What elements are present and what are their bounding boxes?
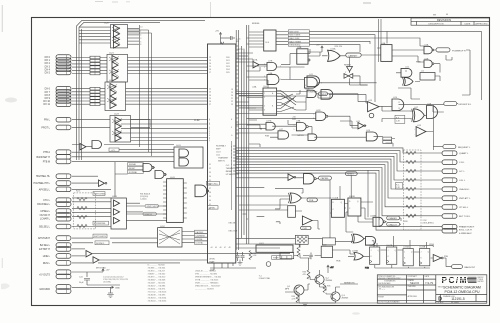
- box small caps: [322, 238, 335, 245]
- label boxes stack (SIGNAL/RESET/NORMAL): [128, 163, 144, 174]
- svg-text:DX5: DX5: [226, 72, 230, 74]
- connector RUN L: [56, 261, 71, 266]
- AND gate U7C: [267, 63, 277, 71]
- svg-text:J: J: [388, 250, 389, 252]
- svg-text:DO NOT SCALE DRAWING: DO NOT SCALE DRAWING: [378, 300, 400, 303]
- svg-text:39: 39: [209, 196, 211, 198]
- svg-text:37: 37: [209, 188, 211, 190]
- wire bus to U5: [247, 32, 261, 47]
- svg-text:U-32: U-32: [194, 118, 200, 122]
- connector GROUND: [56, 285, 71, 290]
- svg-text:SELSEL L: SELSEL L: [39, 226, 51, 229]
- resistor RN row 1: [406, 160, 416, 163]
- svg-text:RESET: RESET: [226, 171, 233, 173]
- flip-flop U56B: [420, 247, 430, 266]
- svg-text:BFT SIG: BFT SIG: [238, 49, 246, 51]
- resistor RN row 4: [406, 187, 416, 190]
- resistor RN row 7: [406, 214, 416, 217]
- label box SCATXF: [143, 212, 157, 216]
- svg-text:MINI TIMER: MINI TIMER: [289, 35, 301, 37]
- wire U32 bottom stubs: [210, 263, 256, 270]
- connector LCHAR L: [56, 216, 71, 221]
- wire bus line 5: [236, 162, 442, 198]
- svg-text:4-WIRE AUX: 4-WIRE AUX: [459, 232, 472, 235]
- svg-text:RUN L: RUN L: [43, 262, 51, 265]
- svg-text:REQUEST L: REQUEST L: [458, 147, 471, 149]
- svg-text:U-21: U-21: [109, 53, 115, 55]
- svg-text:LP SER: LP SER: [226, 174, 234, 176]
- svg-text:DX 11: DX 11: [44, 103, 51, 106]
- wire RUN row: [72, 262, 92, 264]
- svg-text:12: 12: [209, 57, 211, 59]
- wire extra field density: [236, 49, 470, 147]
- svg-text:U-50B: U-50B: [349, 196, 355, 198]
- svg-text:DESCRIPTION: DESCRIPTION: [429, 24, 444, 26]
- connector PIN L: [56, 117, 71, 122]
- svg-text:23: 23: [231, 104, 233, 106]
- buffer U7B: [253, 62, 259, 68]
- svg-text:24: 24: [209, 95, 211, 97]
- wire vertical pair top right: [379, 19, 382, 62]
- svg-text:U-2A: U-2A: [424, 44, 429, 47]
- wire CTC/PACKSEL rows: [72, 197, 111, 199]
- svg-text:21: 21: [231, 98, 233, 100]
- svg-text:CYBER: CYBER: [478, 279, 484, 281]
- connector CHA SIG L: [442, 187, 457, 192]
- AND gate U30B: [92, 141, 102, 149]
- pin number specks: [264, 64, 415, 136]
- wire bus line 2: [79, 22, 160, 160]
- svg-text:RESET: RESET: [347, 174, 355, 176]
- connector RESET oval: [345, 172, 357, 176]
- svg-text:74LS74 ..... 74L257: 74LS74 ..... 74L257: [148, 271, 166, 273]
- XOR gate U52B: [289, 193, 302, 203]
- label box BUFCTL: [95, 241, 109, 245]
- svg-text:.................... 74LS93: .................... 74LS93: [195, 289, 214, 291]
- connector EXTINT H: [56, 247, 71, 252]
- wire transistor section: [230, 244, 377, 303]
- svg-text:NORMAL: NORMAL: [129, 171, 138, 174]
- buffer group U22: [105, 80, 126, 110]
- svg-text:7: 7: [209, 139, 210, 141]
- svg-text:CONTRACT: CONTRACT: [408, 275, 417, 278]
- connector APSTGB H: [56, 236, 71, 241]
- crystal Y1: [259, 262, 271, 280]
- svg-text:U-12: U-12: [405, 67, 409, 69]
- svg-text:DEVSKP B L: DEVSKP B L: [459, 104, 473, 106]
- connector DX2: [56, 61, 71, 66]
- svg-text:U-1: U-1: [421, 71, 424, 73]
- svg-text:3: 3: [280, 66, 281, 68]
- wire vertical bus 1: [235, 30, 237, 250]
- connector FRAME RUN H: [442, 225, 457, 230]
- resistor RN row 6: [406, 205, 416, 208]
- svg-text:VIDB ................ TMS4045: VIDB ................ TMS4045: [195, 283, 219, 285]
- svg-text:U-15: U-15: [356, 121, 360, 123]
- buffer U23A: [86, 251, 92, 257]
- paper edge artifact left: [1, 5, 3, 32]
- svg-text:40: 40: [209, 200, 211, 202]
- svg-text:CHECKED: CHECKED: [408, 286, 417, 288]
- svg-text:10: 10: [140, 27, 142, 29]
- NAND gate U53B: [304, 174, 317, 184]
- wire EXTINT row: [72, 248, 85, 250]
- svg-text:12: 12: [398, 102, 400, 104]
- inverter U53A: [288, 174, 296, 180]
- IC U41: [163, 177, 187, 222]
- svg-text:3: 3: [140, 38, 141, 40]
- svg-text:3: 3: [209, 123, 210, 125]
- IC U59 box: [321, 244, 332, 257]
- opamp U51B: [302, 216, 312, 225]
- svg-text:74LS157 ... 74LS86: 74LS157 ... 74LS86: [148, 286, 167, 288]
- wire UPSEL/OUTAF/LCHAR rows: [72, 208, 111, 210]
- svg-text:U-19: U-19: [417, 125, 421, 127]
- svg-text:GROUND: GROUND: [39, 288, 50, 291]
- svg-text:74L5257 ... 74LS32: 74L5257 ... 74LS32: [148, 283, 166, 285]
- svg-text:U-14: U-14: [393, 97, 397, 99]
- XOR gate U12B: [403, 78, 414, 86]
- svg-text:8: 8: [321, 83, 322, 85]
- OR gate U10A: [328, 50, 341, 61]
- paper top marks: [95, 1, 130, 4]
- resistor pull-up column dashed box: [404, 150, 422, 230]
- svg-text:CHA SIG L: CHA SIG L: [459, 188, 470, 191]
- AND gate U8B: [305, 78, 318, 89]
- svg-text:U-8A: U-8A: [296, 120, 301, 123]
- svg-text:LDGITAL: LDGITAL: [196, 242, 204, 245]
- resistor pack boxes DX0-5: [90, 56, 100, 105]
- svg-text:SWITCHSTB: SWITCHSTB: [147, 206, 159, 208]
- pass gate: [344, 74, 353, 79]
- opamp U19: [416, 127, 426, 137]
- wire vertical bus 3: [246, 25, 248, 244]
- net label SERBIT: [340, 282, 358, 284]
- wire field interconnects: [236, 31, 481, 150]
- svg-text:MAXI DISK: MAXI DISK: [289, 37, 300, 40]
- wire bus line 0: [236, 148, 442, 153]
- resistor boxes R31: [383, 137, 392, 143]
- svg-text:4: 4: [264, 76, 265, 78]
- paper smudge left upper: [5, 98, 17, 103]
- svg-text:32: 32: [209, 168, 211, 170]
- svg-text:VXTB ................ 74LS123: VXTB ................ 74LS123: [195, 280, 219, 282]
- svg-text:BUT TON L: BUT TON L: [459, 216, 471, 218]
- svg-text:+5V: +5V: [215, 31, 219, 33]
- connector DX8: [56, 93, 71, 98]
- svg-text:U-27A: U-27A: [266, 120, 272, 123]
- resistor network dashed box: [74, 193, 96, 229]
- svg-text:SKIP: SKIP: [216, 149, 221, 151]
- svg-text:U-11: U-11: [309, 74, 313, 76]
- svg-text:U-31: U-31: [176, 145, 182, 147]
- svg-text:31: 31: [209, 164, 211, 166]
- svg-text:U-13: U-13: [368, 100, 372, 102]
- svg-text:IC ............. 74LS00: IC ............. 74LS00: [148, 265, 166, 267]
- capacitor C21: [236, 252, 240, 261]
- pencil mark top center: [210, 2, 212, 17]
- svg-text:OSC OUT: OSC OUT: [228, 231, 238, 233]
- connector O.B. L: [442, 178, 457, 183]
- svg-text:22: 22: [231, 101, 233, 103]
- svg-text:2N3904: 2N3904: [326, 280, 333, 282]
- svg-text:PUR: PUR: [303, 228, 308, 230]
- resistor RN row 5: [406, 196, 416, 199]
- NAND gate U42A: [195, 185, 209, 197]
- wire bus line 3: [236, 156, 442, 180]
- connector APXSEL L: [56, 187, 71, 192]
- AND gate U8A: [267, 75, 279, 85]
- wire bus line 7: [236, 168, 442, 216]
- wire mid gate connects: [236, 92, 367, 148]
- connector REQUEST L: [443, 145, 471, 149]
- parts list table: [148, 265, 223, 303]
- label box XTL: [109, 148, 119, 151]
- wire bus line 1: [236, 151, 442, 162]
- svg-text:CPSEL: CPSEL: [209, 208, 216, 210]
- svg-text:SCATXF: SCATXF: [144, 213, 153, 216]
- svg-text:5: 5: [264, 106, 265, 108]
- svg-text:74 LS 42 ... 74LS123: 74 LS 42 ... 74LS123: [148, 292, 168, 294]
- svg-text:+5 VOLTS: +5 VOLTS: [39, 274, 50, 277]
- svg-text:6: 6: [264, 110, 265, 112]
- connector DX6: [56, 86, 71, 91]
- svg-text:C/LO: C/LO: [216, 152, 221, 154]
- OR gate U58A: [352, 250, 363, 260]
- svg-text:OUTAF H: OUTAF H: [40, 214, 51, 217]
- ground stub: [302, 303, 308, 306]
- XOR gate U17: [412, 109, 425, 122]
- label boxes DACBUF stack: [195, 230, 208, 244]
- resistor R pack row4: [77, 224, 87, 227]
- label box SWITCHSTB2: [93, 234, 107, 238]
- IC U6: [260, 86, 281, 115]
- opamp U43A: [99, 180, 105, 186]
- svg-text:PROT L: PROT L: [41, 126, 50, 129]
- power +5V arrow: [327, 265, 334, 269]
- svg-text:PVE: PVE: [444, 256, 449, 258]
- connector DEVSKP B L: [444, 102, 472, 106]
- svg-text:R35: R35: [327, 286, 330, 288]
- connector SELSEL L: [56, 224, 71, 229]
- svg-text:U-7A: U-7A: [253, 59, 258, 62]
- svg-text:J: J: [404, 252, 405, 254]
- svg-text:SWITCHCL: SWITCHCL: [207, 183, 218, 185]
- svg-text:C-24(5): C-24(5): [140, 199, 147, 201]
- connector C.B L: [442, 160, 457, 165]
- label box BUFFERSEL: [93, 221, 109, 225]
- AND gate U16: [366, 132, 377, 141]
- connector +5 VOLTS: [56, 270, 71, 275]
- flip-flop U51A: [288, 206, 296, 218]
- wire U52 outputs: [182, 232, 195, 243]
- svg-text:POWERUP H: POWERUP H: [452, 50, 466, 52]
- title block left info text: [378, 275, 430, 303]
- svg-text:PTB A: PTB A: [43, 151, 50, 154]
- wire vertical bus 2: [238, 30, 240, 250]
- svg-text:DX 5: DX 5: [45, 71, 51, 74]
- svg-text:UNLESS OTHERWISE SPEC.: UNLESS OTHERWISE SPEC.: [378, 278, 401, 280]
- flip-flop U56A: [403, 246, 413, 266]
- svg-text:74LS138 ... 74LS93: 74LS138 ... 74LS93: [148, 295, 167, 297]
- NAND gate U2A: [424, 46, 434, 54]
- AND gate U11B: [321, 90, 333, 100]
- svg-text:FRAME RUN H: FRAME RUN H: [459, 225, 475, 228]
- +5V MTG PAD: [72, 269, 120, 298]
- svg-text:48: 48: [229, 247, 231, 249]
- svg-text:SWITCHSEL: SWITCHSEL: [94, 194, 107, 196]
- svg-text:10: 10: [304, 85, 306, 87]
- resistor pack boxes DX6-11: [90, 87, 100, 90]
- svg-text:4: 4: [294, 125, 295, 127]
- svg-text:XMIT ATT L: XMIT ATT L: [459, 197, 471, 200]
- connector PACKSEL L: [56, 202, 71, 207]
- svg-text:C.B L: C.B L: [459, 162, 465, 164]
- svg-text:16: 16: [209, 69, 211, 71]
- svg-text:DX0: DX0: [226, 57, 230, 59]
- svg-text:U-57A: U-57A: [370, 244, 376, 247]
- connector UPSEL L: [56, 209, 71, 214]
- connector CAPSEL: [319, 176, 332, 180]
- flip-flop U7A: [297, 49, 310, 64]
- connector DX4: [56, 67, 71, 72]
- svg-text:SELVO: SELVO: [410, 281, 420, 285]
- svg-text:2: 2: [313, 118, 314, 120]
- svg-text:VSB,IOB,VCTL .. 74150/157: VSB,IOB,VCTL .. 74150/157: [195, 286, 221, 288]
- IC U5: [260, 30, 288, 51]
- NAND gate U18: [427, 106, 438, 119]
- net labels O.C. THUMB RESET LP SER: [226, 165, 234, 176]
- svg-text:2: 2: [264, 97, 265, 99]
- transistor Q2: [315, 275, 332, 284]
- reference designator labels top-right field: [238, 42, 432, 132]
- svg-text:9: 9: [304, 79, 305, 81]
- wire LINE row: [72, 255, 85, 257]
- svg-text:J: J: [421, 252, 422, 254]
- label box R.C. 2.2K: [396, 183, 403, 190]
- connector CHAOUT oval: [387, 222, 400, 226]
- svg-text:LADRMSB: LADRMSB: [196, 235, 206, 238]
- svg-text:26: 26: [209, 101, 211, 103]
- connector CABINET: [346, 53, 361, 57]
- connector XMIT ATT L: [442, 196, 457, 201]
- resistor R34: [292, 294, 299, 303]
- wire bus line 4: [236, 159, 442, 189]
- svg-text:74S287 ..... 74LS02: 74S287 ..... 74LS02: [148, 274, 167, 276]
- svg-text:THUMB: THUMB: [226, 168, 234, 170]
- connector DX5: [56, 70, 71, 75]
- svg-text:CP SIG L: CP SIG L: [459, 207, 469, 209]
- svg-text:U-58B: U-58B: [370, 216, 376, 218]
- connector BAUDCNT: [452, 265, 476, 269]
- svg-text:U-6A: U-6A: [252, 85, 257, 88]
- svg-text:(ISOLATED): (ISOLATED): [423, 222, 434, 225]
- svg-text:CABINET: CABINET: [348, 54, 358, 57]
- svg-text:HIGHSEL HH L: HIGHSEL HH L: [33, 182, 50, 185]
- +5V power at top of U32: [219, 33, 235, 45]
- svg-text:U-58A: U-58A: [352, 250, 358, 253]
- wire crossing fan from U6: [281, 91, 296, 112]
- connector DX10: [56, 99, 71, 104]
- paper smudge left lower: [1, 283, 10, 289]
- connector DX11: [56, 102, 71, 107]
- connector CP SIG L: [442, 205, 457, 210]
- PCM logo: [442, 276, 485, 285]
- svg-text:SWITCHSTB: SWITCHSTB: [94, 236, 106, 238]
- transistor Q3: [331, 292, 348, 301]
- svg-text:45: 45: [215, 247, 217, 249]
- svg-text:GND: GND: [115, 288, 120, 290]
- svg-text:BA SEL L: BA SEL L: [40, 244, 51, 247]
- box input filter: [280, 253, 294, 259]
- resistor R30 vertical: [297, 248, 300, 257]
- svg-text:47: 47: [224, 247, 226, 249]
- label box SWITCHCL: [206, 181, 219, 185]
- svg-text:LSI2/LSI ......... 74LS04: LSI2/LSI ......... 74LS04: [195, 271, 217, 273]
- svg-text:LATCH: LATCH: [298, 134, 305, 137]
- svg-text:VREGISTER/REG ... 74LS02: VREGISTER/REG ... 74LS02: [195, 277, 222, 279]
- svg-text:CR-B: CR-B: [429, 244, 435, 246]
- IC U31: [174, 145, 203, 168]
- svg-text:1: 1: [313, 114, 314, 116]
- svg-text:1: 1: [264, 64, 265, 66]
- svg-text:.05 DISC: .05 DISC: [103, 282, 112, 284]
- svg-text:U-50A: U-50A: [332, 197, 338, 200]
- svg-text:MAXI TIMER: MAXI TIMER: [289, 40, 301, 43]
- flip-flop U50B: [348, 196, 361, 216]
- svg-text:U-20: U-20: [104, 23, 110, 25]
- svg-text:FINISH: FINISH: [378, 297, 384, 299]
- resistor R32: [249, 251, 257, 260]
- transistor Q1: [285, 285, 304, 295]
- svg-text:13: 13: [398, 108, 400, 110]
- svg-text:U-56A: U-56A: [403, 246, 409, 249]
- svg-text:22: 22: [209, 89, 211, 91]
- svg-text:74LS367 ... 74LS08: 74LS367 ... 74LS08: [148, 280, 167, 282]
- svg-text:15: 15: [209, 66, 211, 68]
- wire bus line 9: [236, 173, 442, 230]
- connector G.T. L: [442, 169, 457, 174]
- connector BUTTON L: [442, 214, 457, 219]
- svg-text:74LS244 ... 74LS165: 74LS244 ... 74LS165: [148, 301, 168, 303]
- svg-text:CHAOUT: CHAOUT: [388, 223, 397, 226]
- svg-text:6: 6: [140, 44, 141, 46]
- svg-text:LCHAR L: LCHAR L: [40, 218, 51, 221]
- capacitor note text: [103, 277, 129, 284]
- connector LINE L: [56, 254, 71, 259]
- wire SELSEL row: [72, 226, 111, 228]
- ground under caps: [238, 260, 243, 266]
- svg-text:35: 35: [209, 180, 211, 182]
- svg-text:PTB M: PTB M: [43, 160, 50, 163]
- connector HIGHSEL HL: [56, 174, 71, 179]
- resistor RN row 3: [406, 178, 416, 181]
- wire serial interconnects: [236, 170, 401, 247]
- svg-text:1: 1: [264, 93, 265, 95]
- svg-text:20: 20: [231, 95, 233, 97]
- svg-text:DATE: DATE: [465, 23, 471, 26]
- connector PTB M: [56, 159, 71, 164]
- svg-text:VTB .................. 74LS86: VTB .................. 74LS86: [195, 274, 218, 276]
- svg-text:2: 2: [264, 67, 265, 69]
- svg-text:U-9A: U-9A: [297, 46, 302, 49]
- title block: [377, 275, 487, 303]
- svg-text:NORMCL: NORMCL: [96, 243, 106, 245]
- transistor Q4: [369, 113, 374, 118]
- connector BA SEL L: [56, 243, 71, 248]
- AND gate U59B: [366, 237, 376, 245]
- wire bus line 3: [81, 29, 83, 160]
